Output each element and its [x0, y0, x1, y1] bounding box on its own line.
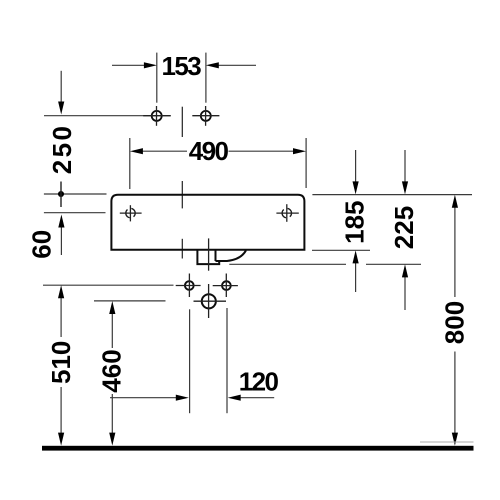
- svg-text:490: 490: [189, 136, 229, 166]
- crosshair v right tap: [205, 106, 207, 126]
- arrowhead 185 bottom up: [353, 250, 359, 263]
- ref line drain level: [94, 300, 166, 302]
- crosshair h right tap: [192, 115, 219, 117]
- 490 ext line left: [129, 138, 131, 189]
- ref line wall holes level: [43, 284, 174, 286]
- mounting hole right dashed circle: [282, 210, 284, 217]
- ref line basin top left: [44, 193, 107, 195]
- drain centerline: [208, 238, 210, 270]
- 120 dim line right segment: [240, 397, 275, 399]
- arrowhead 250 down: [58, 102, 64, 115]
- arrowhead 153 right: [206, 62, 219, 68]
- 800 dim line upper segment: [454, 205, 456, 297]
- 120 ext line left: [189, 309, 191, 413]
- right top ref line: [312, 194, 472, 196]
- tap hole circle left: [152, 111, 162, 121]
- mounting hole left crosshair v: [129, 205, 131, 221]
- 510 dim lower segment: [60, 387, 62, 434]
- arrowhead 460 top up: [109, 301, 115, 314]
- 225 bottom ref line: [229, 263, 346, 265]
- wall hole circle left: [185, 281, 194, 290]
- 185 bottom arrow shaft: [355, 262, 357, 292]
- mounting hole right crosshair h: [276, 212, 298, 214]
- svg-text:153: 153: [162, 51, 202, 81]
- floor line: [42, 446, 474, 451]
- arrowhead 225 top down: [402, 181, 408, 194]
- ref line drain bottom right part: [366, 263, 421, 265]
- arrowhead 225 bottom up: [402, 264, 408, 277]
- dim ext line right of 153: [205, 53, 207, 103]
- svg-text:800: 800: [440, 301, 470, 344]
- 460 dim upper segment: [111, 310, 113, 348]
- dim dot terminator: [58, 191, 64, 197]
- svg-text:225: 225: [389, 206, 419, 249]
- 120 ext line right: [226, 308, 228, 413]
- ref line holes level left: [44, 212, 106, 214]
- wall hole left crosshair h: [176, 285, 201, 287]
- centerline seg3: [181, 239, 183, 259]
- crosshair h left tap: [143, 115, 171, 117]
- arrowhead 510 bottom down: [58, 433, 64, 446]
- dim ext line left of 153: [156, 53, 158, 103]
- centerline seg2: [181, 181, 183, 208]
- 60 arrow shaft: [60, 226, 62, 255]
- basin outline: [111, 195, 304, 250]
- dim line 153 right segment: [218, 64, 257, 66]
- drain block: [197, 250, 219, 264]
- 490 dim line right segment: [229, 150, 295, 152]
- centerline between taps seg1: [181, 107, 183, 137]
- wall hole right crosshair h: [213, 285, 238, 287]
- 225 bottom arrow shaft: [404, 276, 406, 310]
- arrowhead 120 right: [228, 395, 241, 401]
- tap holes horizontal line: [44, 115, 171, 117]
- svg-text:120: 120: [239, 366, 279, 396]
- arrowhead 460 bottom down: [109, 433, 115, 446]
- svg-text:60: 60: [27, 230, 57, 259]
- wall hole right crosshair v: [225, 274, 227, 298]
- arrowhead 120 left: [176, 395, 189, 401]
- tap hole circle right: [201, 111, 211, 121]
- mounting hole left dashed circle: [126, 210, 128, 217]
- wall hole circle right: [222, 281, 231, 290]
- floor ext line thin: [420, 441, 474, 443]
- 490 ext line right: [305, 138, 307, 188]
- 120 dim line left segment: [110, 397, 177, 399]
- svg-text:460: 460: [97, 349, 127, 392]
- arrowhead 510 top up: [58, 285, 64, 298]
- dim line 153 left segment: [112, 64, 145, 66]
- 250 dim top arrow shaft: [60, 71, 62, 103]
- arrowhead 60 up: [58, 215, 64, 228]
- drain horizontal and curve: [216, 250, 247, 261]
- arrowhead 490 right: [293, 148, 306, 154]
- 510 dim upper segment: [60, 295, 62, 337]
- drain hole circle: [202, 294, 216, 308]
- drain stub vertical: [215, 250, 217, 261]
- crosshair v left tap: [156, 106, 158, 126]
- 185 top arrow shaft: [355, 150, 357, 183]
- mounting hole left crosshair h: [120, 212, 142, 214]
- drain hole crosshair h: [194, 300, 227, 302]
- arrowhead 185 top down: [353, 181, 359, 194]
- 225 top arrow shaft: [404, 150, 406, 183]
- svg-text:510: 510: [46, 341, 76, 384]
- arrowhead 153 left: [144, 62, 157, 68]
- 460 dim lower segment: [111, 394, 113, 434]
- wall hole left crosshair v: [188, 274, 190, 298]
- svg-text:185: 185: [340, 201, 370, 244]
- 185 bottom ref line: [312, 249, 370, 251]
- dot vertical tick: [60, 182, 62, 208]
- drain hole crosshair v: [208, 284, 210, 318]
- arrowhead 800 top up: [452, 195, 458, 208]
- 490 dim line left segment: [142, 150, 187, 152]
- arrowhead 800 bottom down: [452, 433, 458, 446]
- mounting hole right crosshair v: [286, 204, 288, 222]
- arrowhead 490 left: [130, 148, 143, 154]
- svg-text:250: 250: [47, 124, 77, 175]
- 800 dim line lower segment: [454, 352, 456, 436]
